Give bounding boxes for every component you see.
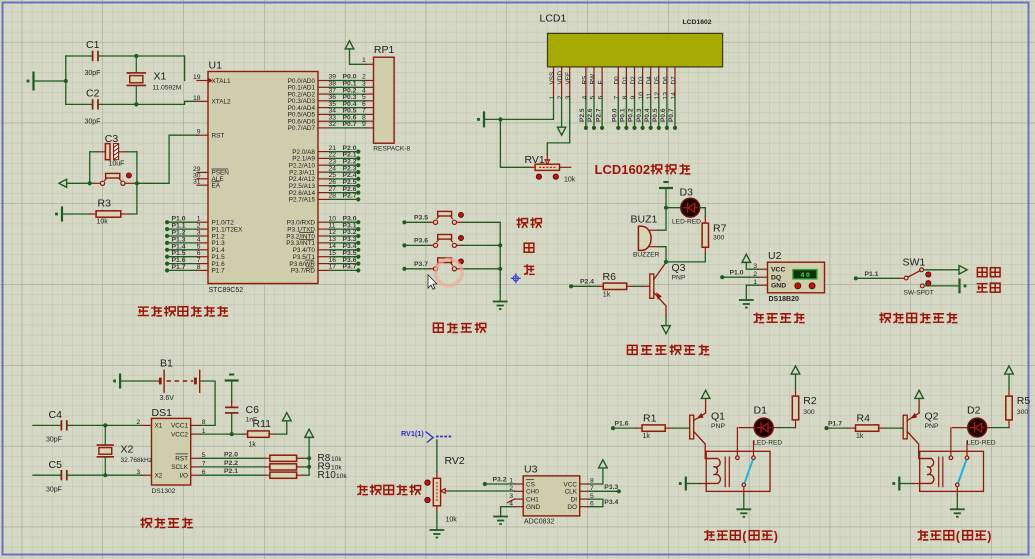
power arrow (U2 VCC) <box>742 254 751 262</box>
DS1 pin names and numbers <box>136 419 205 479</box>
wire <box>404 268 430 270</box>
svg-text:13: 13 <box>662 92 669 100</box>
junction <box>498 267 502 271</box>
svg-text:R4: R4 <box>857 413 871 425</box>
svg-text:EA: EA <box>212 183 221 190</box>
svg-text:P2.7/A15: P2.7/A15 <box>289 197 316 204</box>
power arrow (U3) <box>599 460 608 468</box>
power arrow (no-water) <box>959 266 967 275</box>
svg-text:RP1: RP1 <box>374 44 395 56</box>
wire <box>686 483 700 485</box>
ground (U3) <box>493 517 508 525</box>
svg-text:P3.5: P3.5 <box>414 214 428 221</box>
node P1.7 <box>824 421 842 431</box>
svg-text:D1: D1 <box>754 405 768 417</box>
svg-text:10k: 10k <box>97 219 109 226</box>
svg-text:17: 17 <box>329 264 337 271</box>
svg-text:P1.7: P1.7 <box>212 268 226 275</box>
svg-text:9: 9 <box>197 129 201 136</box>
red action dot <box>459 212 464 217</box>
svg-text:P3.3: P3.3 <box>604 484 618 491</box>
svg-text:BUZ1: BUZ1 <box>631 214 658 226</box>
wire <box>231 381 233 402</box>
svg-text:): ) <box>774 530 778 544</box>
power arrow (left) <box>59 179 67 187</box>
relay (heater) box <box>706 451 770 491</box>
wire <box>136 101 197 104</box>
junction <box>88 181 92 185</box>
module label LCD1602显示屏 <box>595 162 691 177</box>
svg-text:C5: C5 <box>49 459 63 471</box>
wire <box>856 277 899 279</box>
svg-text:1k: 1k <box>249 442 257 449</box>
svg-text:VCC2: VCC2 <box>171 431 188 438</box>
svg-text:U3: U3 <box>524 464 538 476</box>
wire <box>700 208 706 217</box>
click highlight ring <box>436 259 462 285</box>
capacitor C4 <box>33 409 105 444</box>
svg-text:2: 2 <box>557 96 564 100</box>
resistor R8 <box>200 451 342 464</box>
svg-text:3.6V: 3.6V <box>160 395 175 402</box>
wire <box>462 268 500 270</box>
ground (R3) <box>55 207 62 222</box>
resistor R3 <box>62 183 137 225</box>
LED D3 <box>666 187 701 226</box>
svg-text:DS18B20: DS18B20 <box>769 296 799 303</box>
junction <box>103 473 107 477</box>
wire <box>571 285 598 287</box>
node P2.4 <box>569 279 594 289</box>
svg-text:14: 14 <box>670 92 677 100</box>
wire <box>773 427 780 429</box>
svg-text:31: 31 <box>193 179 201 186</box>
wire <box>795 374 797 388</box>
wire <box>34 80 66 82</box>
IC U2 DS18B20 <box>753 250 824 303</box>
svg-text:7: 7 <box>614 96 621 100</box>
svg-text:RW: RW <box>589 73 596 84</box>
power arrow (R11) <box>283 413 292 421</box>
svg-text:B1: B1 <box>160 358 173 370</box>
red action dot <box>536 174 541 179</box>
wire <box>485 483 515 485</box>
svg-text:10: 10 <box>638 92 645 100</box>
node P1.1 <box>854 271 879 281</box>
power arrow (Q2 emitter) <box>915 390 924 398</box>
svg-text:4 0: 4 0 <box>801 272 810 279</box>
voltage probe RV1(1) <box>401 429 452 443</box>
svg-text:C2: C2 <box>86 88 100 100</box>
relay core <box>939 457 943 488</box>
relay contacts and lever <box>736 428 756 487</box>
svg-text:LCD1602: LCD1602 <box>595 162 651 177</box>
resistor R5 <box>1006 389 1031 420</box>
junction <box>230 432 234 436</box>
svg-text:32.768kHz: 32.768kHz <box>121 457 153 464</box>
ground (crystal net) <box>27 72 34 91</box>
wire <box>436 512 438 530</box>
wire <box>914 483 920 485</box>
svg-text:BUZZER: BUZZER <box>633 252 660 259</box>
svg-text:D6: D6 <box>662 76 669 85</box>
svg-text:ADC0832: ADC0832 <box>524 519 554 526</box>
svg-text:1: 1 <box>549 96 556 100</box>
capacitor C2 <box>66 88 137 126</box>
transistor Q1 PNP <box>690 399 726 459</box>
wire <box>136 152 138 184</box>
power arrow (pull-ups) <box>305 429 314 437</box>
svg-text:P2.7: P2.7 <box>343 193 357 200</box>
wire <box>105 424 141 426</box>
wire <box>659 208 667 231</box>
svg-text:PNP: PNP <box>925 423 939 430</box>
wire <box>634 285 643 287</box>
svg-text:LED-RED: LED-RED <box>753 439 782 446</box>
wire <box>350 49 367 65</box>
svg-text:U2: U2 <box>768 250 782 262</box>
svg-text:D1: D1 <box>622 76 629 85</box>
svg-text:P2.2: P2.2 <box>224 460 238 467</box>
junction <box>498 243 502 247</box>
svg-text:LED-RED: LED-RED <box>967 439 996 446</box>
wire <box>987 427 994 429</box>
node P1.0 <box>720 270 744 280</box>
label 无水 <box>977 268 987 277</box>
svg-text:D2: D2 <box>967 405 981 417</box>
resistor R1 <box>636 413 672 440</box>
red action dot <box>425 497 430 502</box>
wire (U3 VCC) <box>589 468 603 484</box>
label 设置 <box>516 218 527 229</box>
svg-text:30pF: 30pF <box>46 487 62 494</box>
svg-text:D0: D0 <box>614 76 621 85</box>
svg-text:P0.7/AD7: P0.7/AD7 <box>288 125 316 132</box>
svg-text:X2: X2 <box>121 444 134 456</box>
svg-text:R7: R7 <box>713 223 727 235</box>
svg-text:CLK: CLK <box>565 489 578 496</box>
mouse cursor <box>428 275 437 290</box>
wire <box>1008 374 1010 388</box>
svg-text:1: 1 <box>362 57 366 64</box>
potentiometer RV2 <box>433 455 465 524</box>
wire (U3 GND) <box>501 507 515 517</box>
wire <box>700 483 706 485</box>
svg-text:P0.4: P0.4 <box>644 108 651 122</box>
svg-text:PNP: PNP <box>672 275 686 282</box>
power/ground down arrow (Q3 emitter) <box>662 316 671 334</box>
LCD1 pin3 VEE wire to RV1 wiper <box>547 98 569 154</box>
svg-text:P3.4: P3.4 <box>604 499 618 506</box>
U1 P3 port net stubs <box>318 215 360 272</box>
relay (heater) box <box>920 451 984 491</box>
resistor R6 <box>598 271 634 299</box>
svg-text:Q2: Q2 <box>925 411 939 423</box>
svg-text:300: 300 <box>713 235 725 242</box>
svg-text:DO: DO <box>567 504 577 511</box>
wire <box>589 490 619 492</box>
svg-text:DI: DI <box>571 496 578 503</box>
svg-text:10k: 10k <box>446 517 458 524</box>
svg-text:DS1302: DS1302 <box>152 488 176 495</box>
svg-text:R11: R11 <box>253 418 272 430</box>
U1 right pin stubs: P0 bus to RP1 <box>318 74 374 128</box>
module label 继电器(加热) <box>704 530 778 544</box>
svg-text:C4: C4 <box>49 409 63 421</box>
svg-text:R1: R1 <box>643 413 657 425</box>
svg-text:P2.0: P2.0 <box>224 451 238 458</box>
svg-text:9: 9 <box>630 96 637 100</box>
node P3.6 <box>402 237 428 247</box>
svg-text:10k: 10k <box>336 473 347 480</box>
push button P3.7 <box>430 258 462 271</box>
LCD data/control wires with net labels <box>579 98 677 130</box>
svg-text:P0.7: P0.7 <box>343 121 357 128</box>
svg-text:D5: D5 <box>654 76 661 85</box>
wire <box>886 427 904 429</box>
wire <box>136 56 184 81</box>
wire <box>200 381 215 425</box>
svg-text:D2: D2 <box>630 76 637 85</box>
node P3.2 <box>483 477 507 487</box>
svg-text:19: 19 <box>193 74 201 81</box>
svg-text:C6: C6 <box>246 404 260 416</box>
power arrow (R2) <box>791 366 800 374</box>
wire (RV2 wiper to CH0) <box>450 490 515 492</box>
module label 继电器(加热) <box>918 530 992 544</box>
svg-text:32: 32 <box>329 121 337 128</box>
svg-text:Q1: Q1 <box>711 411 725 423</box>
red action dot <box>425 480 430 485</box>
module label 时钟模块 <box>140 518 151 529</box>
LCD1 LCD1602 display <box>540 13 723 67</box>
svg-text:4: 4 <box>581 96 588 100</box>
node P1.6 <box>611 421 629 431</box>
svg-text:P3.7: P3.7 <box>414 261 428 268</box>
resistor pack RP1 RESPACK-8 <box>362 44 411 152</box>
module label 单片机最小系统 <box>138 307 149 315</box>
wire <box>746 262 758 269</box>
svg-text:D7: D7 <box>670 76 677 85</box>
node P3.5 <box>402 214 428 224</box>
resistor R9 <box>200 460 342 473</box>
svg-text:1k: 1k <box>603 292 611 299</box>
CH1 no-connect stub <box>508 499 515 503</box>
transistor Q2 PNP <box>903 399 939 459</box>
wire (relay common to ground) <box>956 487 958 495</box>
wire <box>722 276 758 278</box>
wire <box>666 254 705 262</box>
svg-text:30pF: 30pF <box>85 119 101 126</box>
svg-text:8: 8 <box>622 96 629 100</box>
svg-text:P0.3: P0.3 <box>636 108 643 122</box>
junction <box>307 465 311 469</box>
svg-text:GND: GND <box>526 504 541 511</box>
junction <box>664 206 668 210</box>
wire <box>746 285 758 300</box>
svg-text:LCD1: LCD1 <box>540 13 567 25</box>
svg-text:P2.1: P2.1 <box>224 468 238 475</box>
svg-text:P2.7: P2.7 <box>595 108 602 122</box>
svg-text:10k: 10k <box>331 456 342 463</box>
capacitor C5 <box>33 459 105 494</box>
ground (RV2) <box>430 530 445 538</box>
svg-text:I/O: I/O <box>179 473 188 480</box>
wire <box>65 56 67 104</box>
wire (relay common to ground) <box>743 487 745 495</box>
svg-text:X1: X1 <box>155 423 163 430</box>
module label 烟雾值调节 <box>357 485 368 496</box>
svg-text:1k: 1k <box>856 433 864 440</box>
module label 独立按键 <box>433 323 443 332</box>
ground (relay common) <box>950 509 965 517</box>
crystal X2 <box>97 425 152 475</box>
relay coil <box>919 459 934 484</box>
red action dot <box>926 272 931 277</box>
svg-text:CH1: CH1 <box>526 496 539 503</box>
ground (relay common) <box>736 509 751 517</box>
svg-text:P0.0: P0.0 <box>612 108 619 122</box>
relay coil <box>705 459 720 484</box>
wire (contrast net) <box>500 119 529 167</box>
IC U1 STC89C52 body <box>208 60 318 295</box>
push button P3.5 <box>430 211 462 224</box>
resistor R4 <box>850 413 886 440</box>
wire (DI/DO tie) <box>589 499 603 507</box>
power bar (C6 top) <box>225 375 239 381</box>
red action dot <box>459 236 464 241</box>
transistor Q3 PNP <box>643 262 686 316</box>
svg-text:P1.7: P1.7 <box>172 264 186 271</box>
svg-text:1k: 1k <box>643 433 651 440</box>
module label 液体检测模块 <box>879 313 890 324</box>
wire <box>275 421 287 434</box>
wire <box>404 244 430 246</box>
svg-text:30pF: 30pF <box>46 437 62 444</box>
wire (pull-up common) <box>308 438 310 476</box>
power arrow (R5) <box>1005 366 1014 374</box>
wire <box>462 244 500 246</box>
wire <box>899 483 913 485</box>
svg-text:R10: R10 <box>318 470 337 481</box>
ground (battery) <box>113 374 120 389</box>
U1 P2 port net stubs <box>318 145 360 202</box>
svg-text:R5: R5 <box>1017 395 1031 407</box>
wire <box>404 221 430 223</box>
wire <box>484 118 500 120</box>
svg-text:D3: D3 <box>680 187 694 199</box>
svg-text:C1: C1 <box>86 39 100 51</box>
svg-text:P0.6: P0.6 <box>660 108 667 122</box>
ground (relay coil) <box>679 477 686 491</box>
switch SW1 SW-SPDT <box>899 257 934 297</box>
svg-text:P2.5: P2.5 <box>579 108 586 122</box>
LCD1 pin1 VSS wire to ground rail <box>500 98 553 119</box>
crystal X1 <box>127 56 182 104</box>
svg-text:P3.7: P3.7 <box>343 264 357 271</box>
ground (relay coil) <box>892 477 899 491</box>
svg-text:2: 2 <box>509 485 513 492</box>
wire (button common bus) <box>499 222 501 292</box>
junction <box>134 102 138 106</box>
svg-text:8: 8 <box>202 419 206 426</box>
push button P3.6 <box>430 235 462 248</box>
svg-text:RV1(1): RV1(1) <box>401 429 424 438</box>
ground (LCD) <box>477 111 484 127</box>
svg-text:6: 6 <box>598 96 605 100</box>
svg-text:11: 11 <box>646 92 653 99</box>
relay contacts and lever <box>949 428 969 487</box>
wire <box>672 427 690 429</box>
junction <box>498 117 502 121</box>
svg-text:P0.5: P0.5 <box>652 108 659 122</box>
battery B1 <box>159 358 200 402</box>
power arrow (RP1 pin1) <box>345 41 354 49</box>
power arrow (Q1 emitter) <box>701 390 710 398</box>
svg-text:VCC: VCC <box>771 267 785 274</box>
svg-text:VEE: VEE <box>565 72 572 85</box>
ground (U2) <box>739 300 754 308</box>
svg-text:DS1: DS1 <box>152 407 173 419</box>
svg-text:P0.1: P0.1 <box>620 108 627 122</box>
label 减 <box>524 264 535 275</box>
ground (has-water) <box>960 278 967 293</box>
LCD1 pin2 VDD wire and down arrow <box>557 98 565 135</box>
wire <box>924 269 959 271</box>
svg-text:R3: R3 <box>98 198 112 210</box>
svg-text:XTAL2: XTAL2 <box>212 99 232 106</box>
svg-text:P2.6: P2.6 <box>587 108 594 122</box>
junction <box>135 181 139 185</box>
svg-text:P0.2: P0.2 <box>628 108 635 122</box>
wire <box>436 440 438 472</box>
IC U3 ADC0832 body <box>523 464 580 526</box>
svg-text:3: 3 <box>565 96 572 100</box>
wire <box>105 474 141 476</box>
junction <box>664 260 668 264</box>
svg-text:RV1: RV1 <box>525 154 545 166</box>
svg-text:300: 300 <box>803 409 815 416</box>
LCD1 pin stubs, rotated names and numbers <box>549 67 678 100</box>
wire <box>665 188 667 208</box>
IC DS1 DS1302 body <box>152 407 191 495</box>
svg-text:C3: C3 <box>105 133 119 145</box>
svg-text:X2: X2 <box>155 473 163 480</box>
svg-text:RS: RS <box>581 76 588 85</box>
svg-text:RV2: RV2 <box>445 455 465 467</box>
junction <box>134 54 138 58</box>
svg-text:9: 9 <box>362 121 366 128</box>
svg-text:VSS: VSS <box>549 72 556 85</box>
junction <box>307 456 311 460</box>
red action dot <box>459 259 464 264</box>
svg-text:VCC: VCC <box>564 481 578 488</box>
svg-text:R6: R6 <box>603 271 617 283</box>
U3 pin names and numbers <box>509 478 594 511</box>
svg-text:12: 12 <box>654 92 661 100</box>
svg-text:11.0592M: 11.0592M <box>153 85 182 92</box>
junction <box>64 79 68 83</box>
label 有水 <box>977 284 988 292</box>
buzzer BUZ1 <box>631 214 660 259</box>
svg-text:U1: U1 <box>209 60 223 72</box>
power bar (alarm VCC) <box>659 182 673 188</box>
svg-text:XTAL1: XTAL1 <box>212 78 232 85</box>
junction <box>103 423 107 427</box>
wire <box>659 247 667 262</box>
svg-text:D4: D4 <box>646 76 653 85</box>
wire <box>924 285 957 287</box>
